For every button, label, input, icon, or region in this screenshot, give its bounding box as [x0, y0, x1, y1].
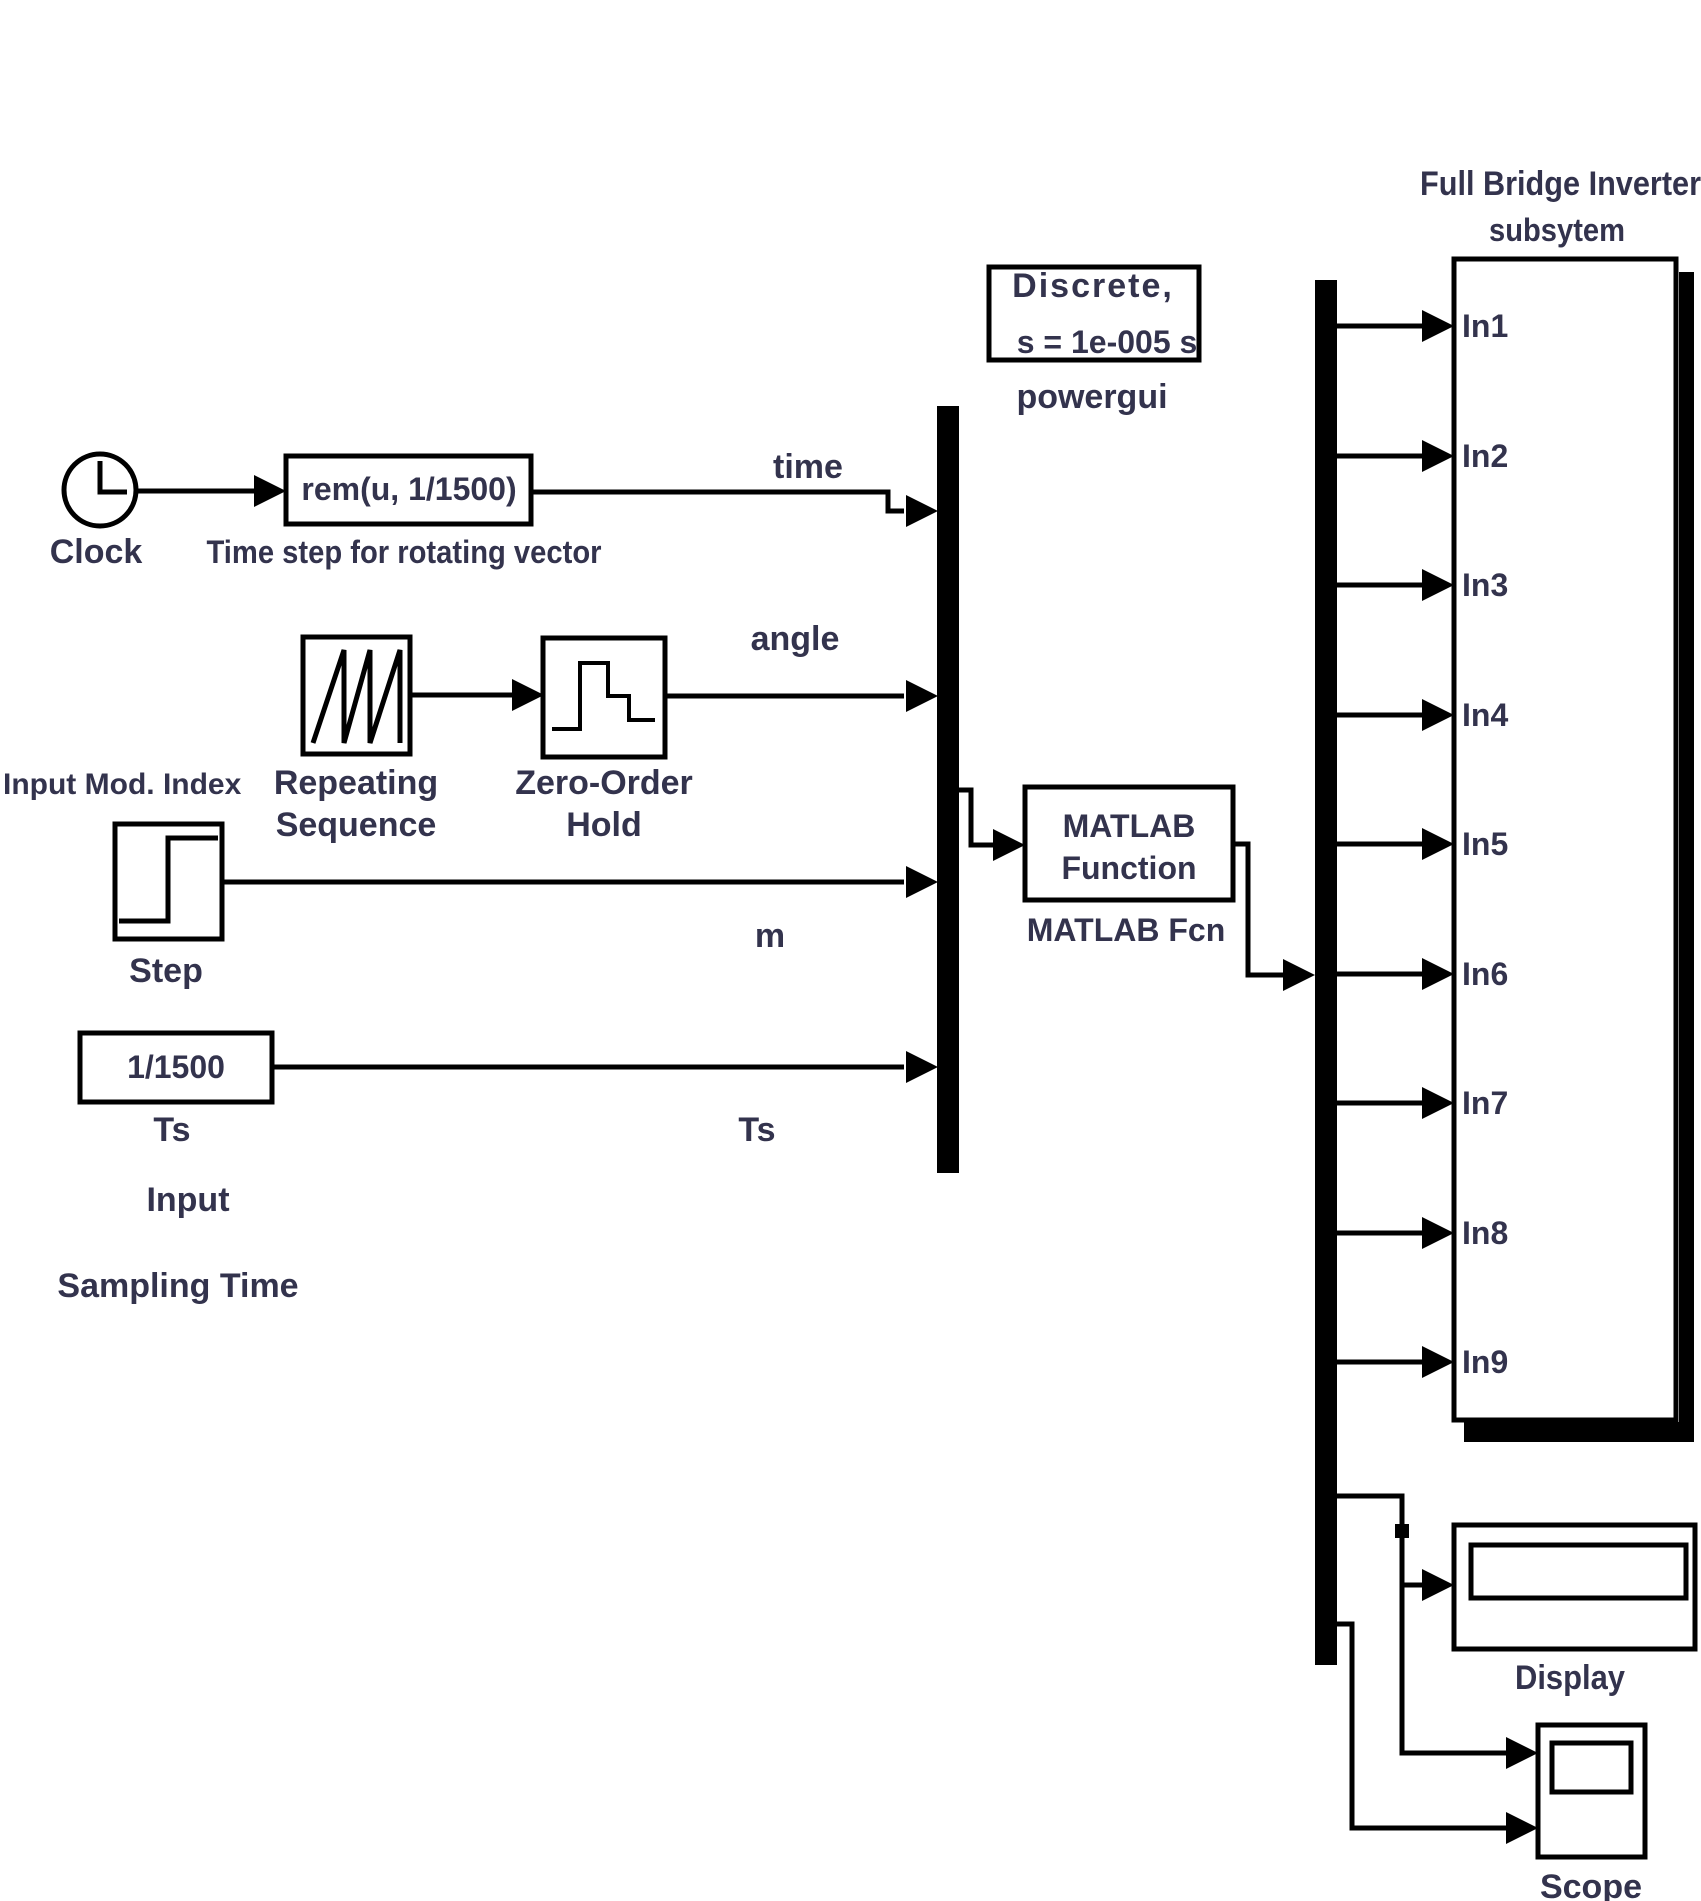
svg-text:MATLAB Fcn: MATLAB Fcn — [1027, 912, 1225, 948]
svg-text:rem(u, 1/1500): rem(u, 1/1500) — [301, 471, 516, 507]
arrowhead into MATLAB Function — [993, 829, 1025, 861]
svg-text:Display: Display — [1515, 1659, 1625, 1697]
arrowhead into scope input 2 — [1506, 1812, 1538, 1844]
label Repeating Sequence — [274, 764, 438, 844]
wire demux to scope input 2 — [1337, 1624, 1506, 1828]
svg-text:powergui: powergui — [1016, 378, 1167, 416]
svg-text:In5: In5 — [1462, 826, 1508, 862]
display block — [1454, 1525, 1695, 1649]
branch wire to display — [1402, 1583, 1422, 1588]
svg-text:In1: In1 — [1462, 308, 1508, 344]
svg-text:Discrete,: Discrete, — [1012, 267, 1174, 305]
svg-text:Step: Step — [129, 952, 203, 990]
wire to In2 — [1337, 454, 1422, 459]
svg-text:Repeating: Repeating — [274, 764, 438, 802]
repeating sequence block — [303, 637, 410, 754]
svg-text:In8: In8 — [1462, 1215, 1508, 1251]
wire mux to MATLAB Function — [959, 790, 993, 845]
svg-text:Clock: Clock — [50, 533, 143, 571]
arrowhead into scope input 1 — [1506, 1737, 1538, 1769]
step block — [115, 824, 222, 939]
svg-text:Sequence: Sequence — [276, 806, 437, 844]
wire to In3 — [1337, 583, 1422, 588]
svg-text:In4: In4 — [1462, 697, 1508, 733]
svg-text:Input Mod. Index: Input Mod. Index — [3, 768, 242, 801]
svg-text:m: m — [755, 917, 785, 955]
svg-text:MATLAB: MATLAB — [1063, 808, 1196, 844]
label Zero-Order Hold — [515, 764, 693, 844]
arrowhead Ts into mux — [906, 1051, 938, 1083]
subsystem block — [1454, 259, 1676, 1420]
arrowhead m into mux — [906, 866, 938, 898]
svg-text:1/1500: 1/1500 — [127, 1049, 225, 1085]
subsystem shadow — [1464, 272, 1694, 1442]
constant block 1/1500 — [80, 1033, 272, 1102]
powergui block — [989, 267, 1199, 360]
wire to In6 — [1337, 972, 1422, 977]
svg-text:subsytem: subsytem — [1489, 212, 1625, 248]
svg-text:Time step for rotating vector: Time step for rotating vector — [207, 534, 602, 570]
arrowhead into display — [1422, 1569, 1454, 1601]
svg-text:angle: angle — [751, 620, 840, 658]
svg-text:Ts: Ts — [738, 1111, 775, 1149]
svg-text:In9: In9 — [1462, 1344, 1508, 1380]
arrowhead time into mux — [906, 495, 938, 527]
svg-text:In6: In6 — [1462, 956, 1508, 992]
junction dot — [1395, 1524, 1409, 1538]
clock block — [64, 454, 136, 526]
wire to In8 — [1337, 1231, 1422, 1236]
svg-text:Ts: Ts — [153, 1111, 190, 1149]
svg-text:Sampling Time: Sampling Time — [57, 1267, 298, 1305]
wire MATLAB Function to demux — [1233, 844, 1283, 975]
wire Ts (constant to mux) — [272, 1065, 904, 1070]
block rem(u, 1/1500) — [286, 456, 531, 524]
label Full Bridge Inverter subsytem — [1420, 165, 1701, 248]
svg-text:Hold: Hold — [566, 806, 642, 844]
svg-text:Zero-Order: Zero-Order — [515, 764, 693, 802]
wire time (rem to mux) — [531, 492, 904, 511]
wire to In7 — [1337, 1101, 1422, 1106]
arrowhead angle into mux — [906, 680, 938, 712]
zero-order hold block — [543, 638, 665, 757]
arrowhead into ZOH — [512, 679, 544, 711]
svg-text:Full Bridge Inverter: Full Bridge Inverter — [1420, 165, 1701, 203]
wire to In1 — [1337, 324, 1422, 329]
mux bar — [937, 406, 959, 1173]
wire to In4 — [1337, 713, 1422, 718]
svg-text:Function: Function — [1061, 850, 1196, 886]
arrowhead into demux — [1283, 959, 1315, 991]
svg-text:s = 1e-005 s: s = 1e-005 s — [1017, 324, 1198, 360]
wire m (step to mux) — [222, 880, 904, 885]
wire RS to ZOH — [410, 693, 516, 698]
wire to In9 — [1337, 1360, 1422, 1365]
wire clock to rem — [136, 489, 260, 494]
svg-text:time: time — [773, 448, 843, 486]
svg-text:In7: In7 — [1462, 1085, 1508, 1121]
arrowhead into rem — [254, 475, 286, 507]
demux bar — [1315, 280, 1337, 1665]
svg-text:In3: In3 — [1462, 567, 1508, 603]
MATLAB Function block — [1025, 787, 1233, 900]
wire angle (ZOH to mux) — [665, 694, 904, 699]
svg-text:In2: In2 — [1462, 438, 1508, 474]
wire demux to display and scope input 1 — [1337, 1496, 1506, 1753]
scope block — [1538, 1725, 1645, 1857]
svg-text:Scope: Scope — [1540, 1868, 1642, 1901]
wire to In5 — [1337, 842, 1422, 847]
svg-text:Input: Input — [146, 1181, 229, 1219]
